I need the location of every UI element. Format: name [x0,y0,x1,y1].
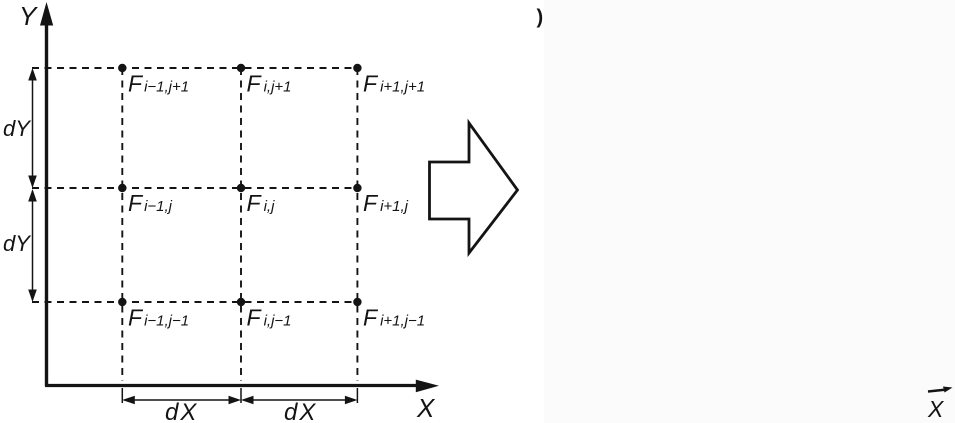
node F i,j [237,184,245,192]
svg-text:): ) [537,7,544,29]
node F i-1,j+1 [118,64,126,72]
extension line below axis at column i+1 [356,388,358,403]
big block arrow [430,123,518,253]
dashed grid column line i-1 [121,68,123,381]
node F i+1,j-1 [353,298,361,306]
svg-text:Y: Y [19,1,38,31]
node F i,j-1 [237,298,245,306]
svg-text:dX: dX [284,399,317,423]
Y axis [40,2,53,386]
svg-text:X: X [416,393,436,423]
extension line below axis at column i-1 [121,388,123,403]
dashed grid row line j+1 [32,67,358,69]
dX dimension arrow left span [122,396,241,405]
svg-text:dY: dY [3,116,31,141]
dX dimension arrow right span [241,396,357,405]
node F i+1,j+1 [353,64,361,72]
dY dimension arrow lower [28,189,37,302]
node F i+1,j [353,184,361,192]
dashed grid row line j [32,187,358,189]
dashed grid row line j-1 [32,301,358,303]
node F i,j+1 [237,64,245,72]
svg-text:dX: dX [165,399,198,423]
dashed grid column line i [240,68,242,381]
X axis [45,380,439,393]
extension line below axis at column i [240,388,242,403]
svg-text:dY: dY [3,231,31,256]
svg-text:X: X [927,396,945,422]
node F i-1,j-1 [118,298,126,306]
node F i-1,j [118,184,126,192]
mini X axis arrow (cropped figure at right edge) [928,387,953,393]
dashed grid column line i+1 [356,68,358,381]
dY dimension arrow upper [28,68,37,188]
